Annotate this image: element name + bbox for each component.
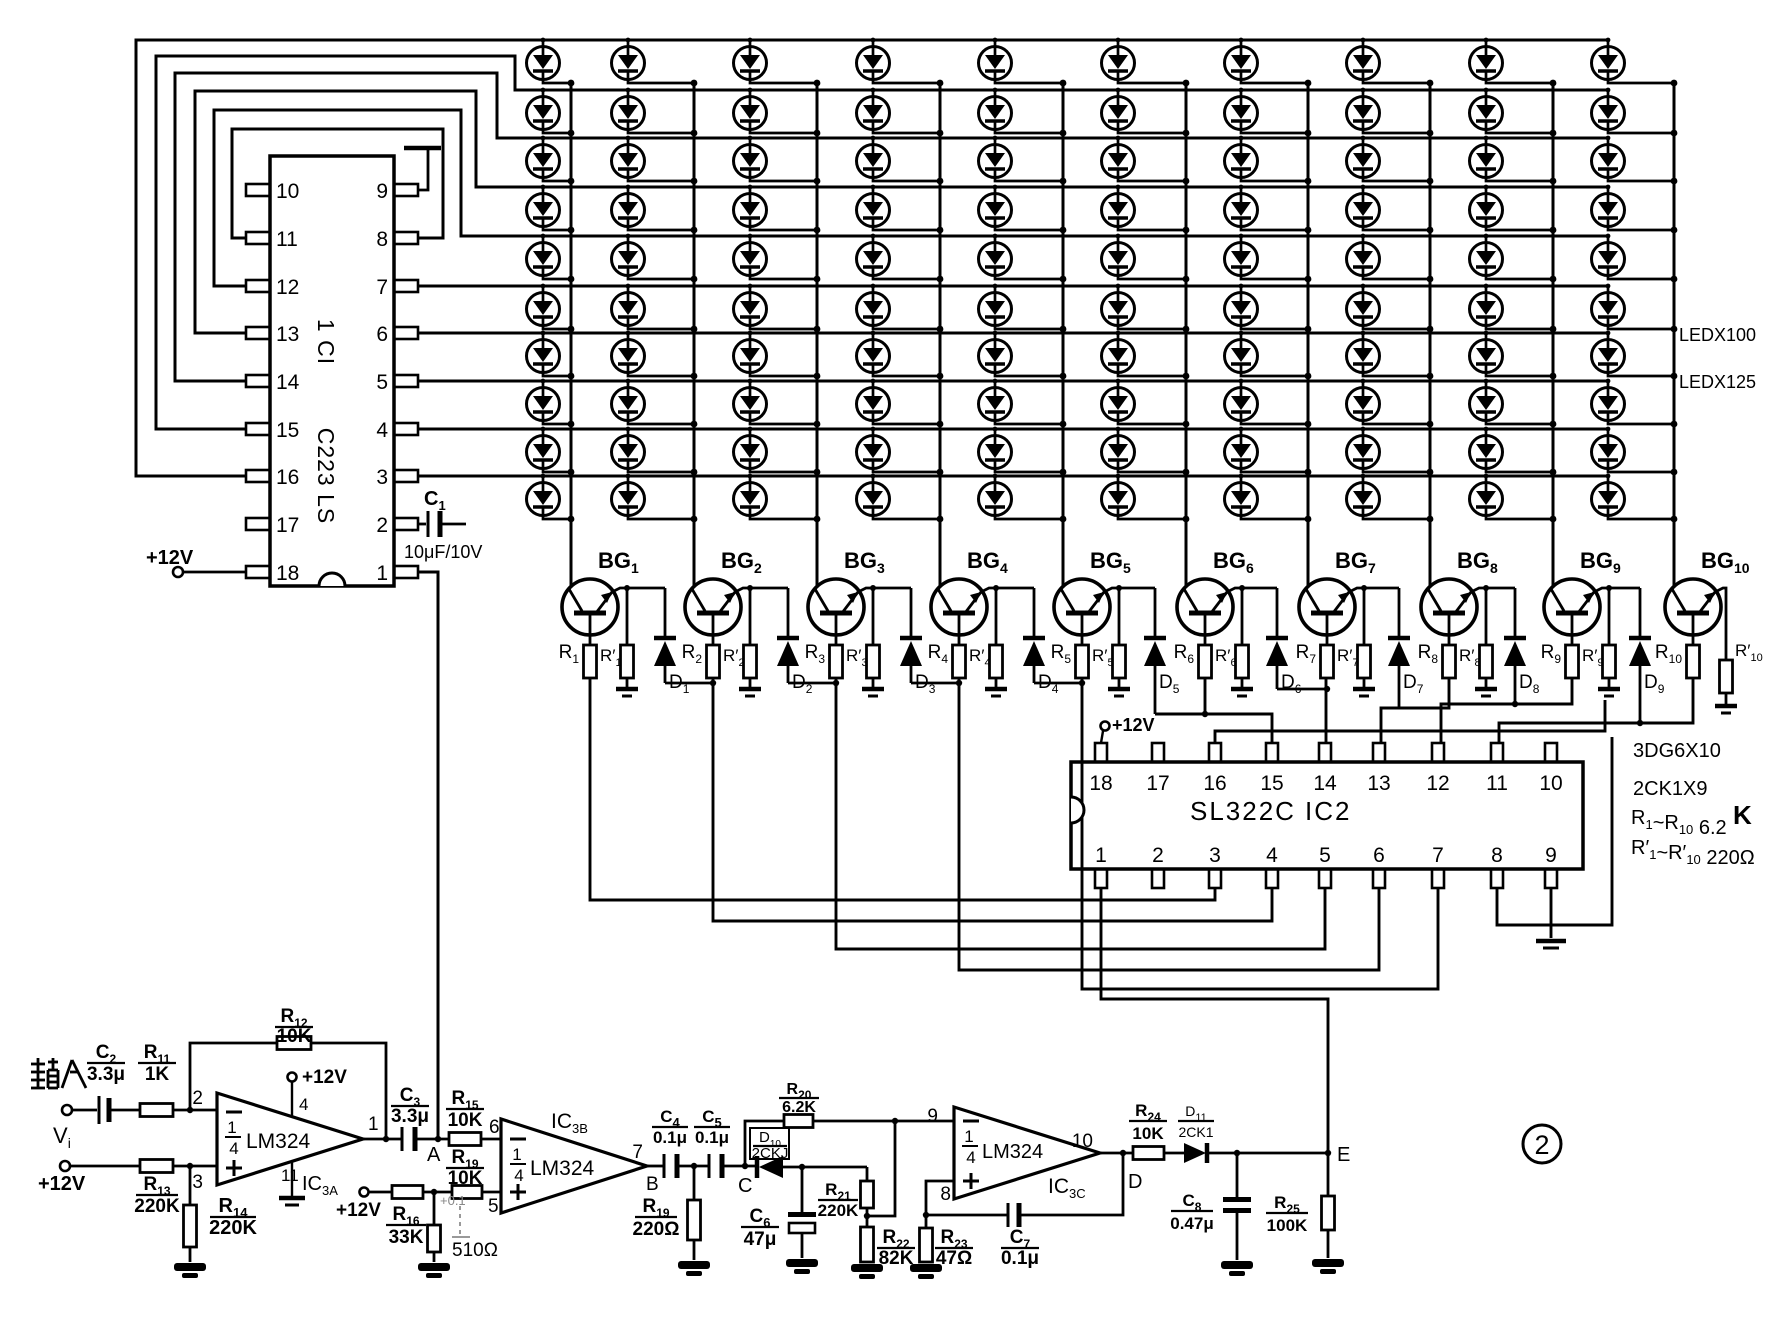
svg-text:D: D	[1128, 1171, 1142, 1193]
wire BG10 base to IC2 pin11	[1499, 678, 1693, 743]
op-amp IC3B	[501, 1119, 647, 1213]
ground at IC2 pin9	[1550, 888, 1553, 938]
svg-text:0.47μ: 0.47μ	[1170, 1214, 1214, 1233]
svg-text:LM324: LM324	[982, 1141, 1043, 1163]
svg-text:9: 9	[927, 1106, 938, 1127]
resistor R16 33K from +12V	[360, 1188, 369, 1197]
LED row9 col4	[857, 427, 944, 476]
LED row3 col10	[1592, 136, 1678, 185]
svg-text:510Ω: 510Ω	[452, 1240, 498, 1261]
capacitor C8	[1234, 1150, 1240, 1156]
LED row9 col10	[1592, 427, 1678, 476]
node C	[742, 1163, 748, 1169]
LED row3 col5	[979, 136, 1067, 185]
LED row1 col9	[1470, 38, 1557, 87]
LED row4 col7	[1225, 185, 1312, 234]
wire BG3 base to IC2 pin5	[836, 678, 1325, 949]
svg-text:C223 LS: C223 LS	[313, 428, 339, 525]
svg-text:4: 4	[514, 1166, 523, 1185]
LED row5 col10	[1592, 234, 1678, 283]
diode D3	[900, 588, 922, 683]
LED row4 col6	[1102, 185, 1190, 234]
wire LED column 9 cathode bus down to BG9 collector	[1552, 83, 1555, 586]
LED row7 col9	[1470, 331, 1557, 380]
svg-text:6: 6	[376, 323, 388, 346]
wire IC1 pin13 to LED row bus 4	[195, 91, 1608, 333]
svg-text:4: 4	[1266, 844, 1278, 867]
svg-text:1: 1	[1095, 844, 1107, 867]
LED row5 col3	[734, 234, 821, 283]
svg-text:5: 5	[488, 1196, 499, 1217]
wire IC1 pin12 to LED row bus 5	[214, 110, 1608, 286]
svg-text:4: 4	[229, 1139, 238, 1158]
wire IC1 pin15 to LED row bus 2	[156, 56, 1608, 429]
LED row3 col6	[1102, 136, 1190, 185]
svg-text:4: 4	[966, 1148, 975, 1167]
LED row9 col1	[527, 427, 575, 476]
svg-text:+12V: +12V	[1112, 715, 1155, 735]
ground at C8	[1221, 1261, 1253, 1269]
LED row7 col1	[527, 331, 575, 380]
svg-text:13: 13	[276, 323, 299, 346]
LED row5 col5	[979, 234, 1067, 283]
wire BG1 emitter	[612, 588, 665, 592]
LED row8 col1	[527, 379, 575, 428]
LED row2 col6	[1102, 88, 1190, 137]
resistor R'7	[1363, 588, 1366, 645]
resistor R25	[1327, 1153, 1330, 1196]
wire BG1 base to IC2 pin3	[590, 678, 1215, 900]
svg-text:3: 3	[1209, 844, 1221, 867]
svg-text:33K: 33K	[389, 1227, 424, 1248]
svg-text:10K: 10K	[448, 1110, 483, 1131]
diode D10	[755, 1156, 760, 1178]
capacitor C2	[72, 1109, 97, 1112]
resistor R'4	[995, 588, 998, 645]
svg-text:2CK1: 2CK1	[1178, 1124, 1213, 1140]
diode D6	[1266, 588, 1288, 689]
svg-text:220Ω: 220Ω	[633, 1219, 680, 1240]
diode D11	[1184, 1143, 1206, 1163]
svg-text:K: K	[1733, 800, 1752, 830]
junction BG6 base on D5 wire	[1202, 711, 1208, 717]
ground at C6	[786, 1259, 818, 1267]
LED row3 col9	[1470, 136, 1557, 185]
svg-text:3: 3	[192, 1172, 203, 1193]
svg-text:5: 5	[1319, 844, 1331, 867]
wire pin9 node to R21/R22 node	[867, 1121, 895, 1216]
LED row2 col3	[734, 88, 821, 137]
resistor R'3	[872, 588, 875, 645]
svg-text:2CKJ: 2CKJ	[752, 1145, 789, 1162]
svg-text:2: 2	[192, 1088, 203, 1109]
resistor R22	[861, 1227, 874, 1262]
wire IC2 pin16 up right	[1215, 700, 1605, 743]
capacitor C1 10uF/10V at IC1 pin2	[418, 523, 426, 526]
LED row9 col2	[612, 427, 698, 476]
LED row9 col8	[1347, 427, 1434, 476]
svg-text:1: 1	[227, 1118, 236, 1137]
resistor R'8	[1485, 588, 1488, 645]
diode D9	[1629, 588, 1651, 723]
LED row8 col7	[1225, 379, 1312, 428]
svg-text:10: 10	[1539, 772, 1562, 795]
wire BG7 base to IC2 pin14	[1325, 678, 1328, 743]
LED row9 col6	[1102, 427, 1190, 476]
svg-text:+12V: +12V	[146, 547, 194, 569]
svg-text:12: 12	[276, 276, 299, 299]
svg-text:3: 3	[376, 466, 388, 489]
LED row6 col8	[1347, 284, 1434, 333]
svg-text:4: 4	[299, 1095, 308, 1114]
resistor R'1	[626, 588, 629, 645]
svg-text:220K: 220K	[134, 1196, 180, 1217]
ground at R14	[174, 1263, 206, 1271]
LED row4 col9	[1470, 185, 1557, 234]
LED row5 col9	[1470, 234, 1557, 283]
ground at R'2	[739, 687, 761, 692]
resistor R1	[584, 645, 597, 678]
wire IC1 pin16 to LED row bus 1	[136, 40, 1608, 476]
LED row10 col8	[1347, 474, 1434, 523]
op-amp driver IC1 SL322C (18-pin DIP, vertical)	[246, 156, 418, 586]
LED row3 col2	[612, 136, 698, 185]
wire D5 junction to IC2 pin15	[1155, 714, 1272, 743]
LED row4 col2	[612, 185, 698, 234]
wire LED column 6 cathode bus down to BG6 collector	[1185, 83, 1188, 586]
resistor R'2	[749, 588, 752, 645]
svg-text:4: 4	[376, 419, 388, 442]
LED row2 col7	[1225, 88, 1312, 137]
svg-text:IC2: IC2	[1305, 796, 1351, 826]
LED row4 col8	[1347, 185, 1434, 234]
svg-text:+12V: +12V	[336, 1200, 381, 1221]
LED row2 col9	[1470, 88, 1557, 137]
svg-text:9: 9	[1545, 844, 1557, 867]
LED row9 col3	[734, 427, 821, 476]
capacitor C3	[363, 1138, 401, 1141]
resistor R6	[1199, 645, 1212, 678]
svg-text:1 CI: 1 CI	[313, 319, 339, 365]
op-amp IC3C	[954, 1107, 1100, 1199]
transistor BG2	[685, 579, 741, 645]
svg-text:1: 1	[376, 562, 388, 585]
LED row2 col10	[1592, 88, 1678, 137]
resistor R3	[830, 645, 843, 678]
svg-text:1: 1	[368, 1114, 379, 1135]
transistor BG3	[808, 579, 864, 645]
LED row2 col2	[612, 88, 698, 137]
ground at 510ohm resistor	[418, 1263, 450, 1271]
wire D2 to BG3 base	[788, 682, 836, 685]
+12V supply at IC2 pin18	[1101, 722, 1110, 731]
driver IC2 SL322C (18-pin DIP, horizontal)	[1071, 743, 1583, 888]
+12V supply terminal at IC1 pin18	[183, 571, 246, 574]
terminal Vi	[62, 1105, 72, 1115]
node A	[435, 1136, 441, 1142]
LED row2 col5	[979, 88, 1067, 137]
ground at R22	[851, 1264, 883, 1272]
svg-text:15: 15	[1260, 772, 1283, 795]
svg-text:1: 1	[964, 1127, 973, 1146]
feedback C7 and pin8 wiring	[926, 1181, 954, 1215]
svg-text:10K: 10K	[1132, 1124, 1164, 1143]
wire LED column 4 cathode bus down to BG4 collector	[939, 83, 942, 586]
wire BG4 emitter	[981, 588, 1034, 592]
capacitor C4	[647, 1165, 663, 1168]
wire D1 to BG2 base	[665, 682, 713, 685]
LED row10 col9	[1470, 474, 1557, 523]
svg-text:+12V: +12V	[302, 1067, 347, 1088]
svg-text:47μ: 47μ	[744, 1229, 777, 1250]
LED row1 col8	[1347, 38, 1434, 87]
LED row1 col4	[857, 38, 944, 87]
svg-text:C: C	[738, 1175, 752, 1197]
wire BG2 base to IC2 pin4	[713, 678, 1272, 921]
svg-text:220K: 220K	[209, 1217, 257, 1239]
LED row6 col3	[734, 284, 821, 333]
LED row8 col10	[1592, 379, 1678, 428]
wire IC1 pin4 to LED row bus 9	[418, 428, 1608, 431]
svg-text:8: 8	[1491, 844, 1503, 867]
LED row6 col10	[1592, 284, 1678, 333]
LED row2 col1	[527, 88, 575, 137]
LED row10 col7	[1225, 474, 1312, 523]
ground at IC3A pin11	[291, 1161, 293, 1196]
LED row10 col10	[1592, 474, 1678, 523]
svg-text:6: 6	[489, 1117, 500, 1138]
LED row2 col8	[1347, 88, 1434, 137]
LED row1 col2	[612, 38, 698, 87]
svg-text:82K: 82K	[879, 1248, 914, 1269]
IC1 pin9 stub with top bar	[418, 148, 428, 190]
resistor R9	[1566, 645, 1579, 678]
wire IC1 pin14 to LED row bus 3	[175, 73, 1608, 381]
svg-text:10: 10	[1072, 1131, 1093, 1152]
svg-text:2: 2	[1152, 844, 1164, 867]
svg-text:17: 17	[1146, 772, 1169, 795]
svg-text:8: 8	[940, 1184, 951, 1205]
svg-text:13: 13	[1367, 772, 1390, 795]
LED row3 col8	[1347, 136, 1434, 185]
LED row6 col4	[857, 284, 944, 333]
transistor BG1	[562, 579, 618, 645]
wire LED column 3 cathode bus down to BG3 collector	[816, 83, 819, 586]
LED row4 col10	[1592, 185, 1678, 234]
LED row1 col1	[527, 38, 575, 87]
wire LED column 7 cathode bus down to BG7 collector	[1307, 83, 1310, 586]
LED row9 col9	[1470, 427, 1557, 476]
svg-text:12: 12	[1426, 772, 1449, 795]
ground at R'7	[1353, 687, 1375, 692]
ground at R23	[910, 1264, 942, 1272]
svg-text:+12V: +12V	[38, 1173, 86, 1195]
svg-text:15: 15	[276, 419, 299, 442]
LED row10 col6	[1102, 474, 1190, 523]
svg-text:0.1μ: 0.1μ	[695, 1128, 729, 1147]
resistor R20	[745, 1121, 784, 1166]
wire LED column 8 cathode bus down to BG8 collector	[1429, 83, 1432, 586]
capacitor C5	[708, 1154, 711, 1178]
wire D6 to BG7 base	[1277, 688, 1327, 691]
svg-text:1K: 1K	[145, 1064, 170, 1085]
LED row1 col3	[734, 38, 821, 87]
wire BG8 emitter	[1471, 588, 1515, 592]
LED row3 col3	[734, 136, 821, 185]
svg-text:6: 6	[1373, 844, 1385, 867]
ground at R'1	[616, 687, 638, 692]
wire BG5 base to IC2 pin7	[1082, 678, 1438, 989]
wire BG5 emitter	[1104, 588, 1155, 592]
svg-text:100K: 100K	[1267, 1216, 1308, 1235]
wire LED column 5 cathode bus down to BG5 collector	[1062, 83, 1065, 586]
resistor R11	[140, 1104, 173, 1117]
svg-text:6.2K: 6.2K	[782, 1099, 816, 1116]
junction D9 on BG10 wire	[1637, 720, 1643, 726]
resistor R8	[1443, 645, 1456, 678]
svg-text:9: 9	[376, 180, 388, 203]
LED row5 col8	[1347, 234, 1434, 283]
junction D8 on BG9 wire	[1512, 701, 1518, 707]
wire IC2 pin1 to node E	[1101, 888, 1328, 1153]
LED row10 col1	[527, 474, 575, 523]
wire BG6 base / D5 to IC2 pin15	[1204, 678, 1207, 714]
svg-text:+0.1: +0.1	[440, 1193, 466, 1208]
diode D4	[1023, 588, 1045, 683]
svg-text:E: E	[1337, 1144, 1350, 1166]
svg-text:SL322C: SL322C	[1190, 796, 1296, 826]
svg-text:7: 7	[1432, 844, 1444, 867]
ground at R'6	[1231, 687, 1253, 692]
wire LED column 10 cathode bus down to BG10 collector	[1673, 83, 1676, 586]
LED row1 col5	[979, 38, 1067, 87]
wire BG9 base to IC2 pin12	[1441, 678, 1572, 743]
svg-text:16: 16	[1203, 772, 1226, 795]
svg-text:1: 1	[512, 1145, 521, 1164]
wire BG9 emitter	[1594, 588, 1640, 592]
ground at R19	[678, 1261, 710, 1269]
LED row8 col8	[1347, 379, 1434, 428]
LED row1 col6	[1102, 38, 1190, 87]
LED row3 col4	[857, 136, 944, 185]
wire BG2 emitter	[735, 588, 788, 592]
resistor R'5	[1118, 588, 1121, 645]
wire LED column 1 cathode bus down to BG1 collector	[570, 83, 573, 586]
wire BG7 emitter	[1349, 588, 1399, 592]
svg-text:LM324: LM324	[530, 1157, 595, 1180]
ground at R'5	[1108, 687, 1130, 692]
resistor 510ohm	[433, 1192, 436, 1225]
capacitor C6 47u	[801, 1167, 804, 1212]
wire IC2 pin8 to R'10 node	[1497, 737, 1612, 925]
LED row6 col2	[612, 284, 698, 333]
resistor R13	[70, 1165, 140, 1168]
svg-text:0.1μ: 0.1μ	[1001, 1248, 1039, 1269]
wire BG3 emitter	[858, 588, 911, 592]
node E	[1325, 1150, 1331, 1156]
wire BG4 base to IC2 pin6	[959, 678, 1379, 970]
resistor R23	[925, 1215, 928, 1228]
ground at R'3	[862, 687, 884, 692]
LED row3 col7	[1225, 136, 1312, 185]
diode D1	[654, 588, 676, 683]
resistor R2	[707, 645, 720, 678]
LED row8 col5	[979, 379, 1067, 428]
svg-text:10μF/10V: 10μF/10V	[404, 542, 482, 562]
LED row4 col4	[857, 185, 944, 234]
svg-text:A: A	[427, 1144, 441, 1166]
transistor BG8	[1421, 579, 1477, 645]
LED row3 col1	[527, 136, 575, 185]
resistor R21	[866, 1167, 869, 1181]
svg-text:8: 8	[376, 228, 388, 251]
wire LED column 2 cathode bus down to BG2 collector	[693, 83, 696, 586]
wire BG10 emitter	[1715, 588, 1726, 660]
svg-text:2: 2	[376, 514, 388, 537]
transistor BG6	[1177, 579, 1233, 645]
wire D4 to BG5 base	[1034, 682, 1082, 685]
LED row10 col5	[979, 474, 1067, 523]
ground at R'4	[985, 687, 1007, 692]
svg-text:3.3μ: 3.3μ	[87, 1064, 125, 1085]
LED row7 col5	[979, 331, 1067, 380]
LED row10 col4	[857, 474, 944, 523]
+12V at IC3A pin4	[291, 1082, 293, 1117]
svg-text:3DG6X10: 3DG6X10	[1633, 740, 1721, 762]
LED row7 col10	[1592, 331, 1678, 380]
svg-text:0.1μ: 0.1μ	[653, 1128, 687, 1147]
LED row2 col4	[857, 88, 944, 137]
LED row5 col6	[1102, 234, 1190, 283]
diode D5	[1144, 588, 1166, 714]
svg-text:2CK1X9: 2CK1X9	[1633, 778, 1708, 800]
LED row7 col6	[1102, 331, 1190, 380]
svg-text:220K: 220K	[818, 1201, 859, 1220]
transistor BG5	[1054, 579, 1110, 645]
input label (Chinese shu-ru)	[31, 1058, 86, 1088]
diode D8	[1504, 588, 1526, 704]
LED row10 col3	[734, 474, 821, 523]
resistor R14	[189, 1166, 192, 1205]
wire IC1 pin7 to LED row bus 6	[418, 285, 1608, 288]
svg-text:10K: 10K	[277, 1026, 312, 1047]
LED row1 col7	[1225, 38, 1312, 87]
LED row5 col1	[527, 234, 575, 283]
LED row1 col10	[1592, 38, 1678, 87]
svg-text:10: 10	[276, 180, 299, 203]
svg-text:LEDX125: LEDX125	[1679, 372, 1756, 392]
LED row6 col9	[1470, 284, 1557, 333]
resistor R'6	[1241, 588, 1244, 645]
wire IC1 pin1 down to node A	[418, 572, 438, 1139]
LED row7 col3	[734, 331, 821, 380]
resistor R4	[953, 645, 966, 678]
LED row6 col1	[527, 284, 575, 333]
LED row8 col2	[612, 379, 698, 428]
LED row4 col5	[979, 185, 1067, 234]
wire IC1 pin5 to LED row bus 8	[418, 380, 1608, 383]
svg-text:11: 11	[281, 1166, 299, 1185]
svg-text:14: 14	[276, 371, 300, 394]
resistor R10	[1687, 645, 1700, 678]
transistor BG7	[1299, 579, 1355, 645]
svg-text:B: B	[646, 1174, 659, 1195]
LED row5 col2	[612, 234, 698, 283]
svg-text:11: 11	[276, 228, 298, 251]
svg-text:LEDX100: LEDX100	[1679, 325, 1756, 345]
wire IC1 pin11 to IC1 pin8 loop	[232, 129, 443, 238]
LED row7 col4	[857, 331, 944, 380]
